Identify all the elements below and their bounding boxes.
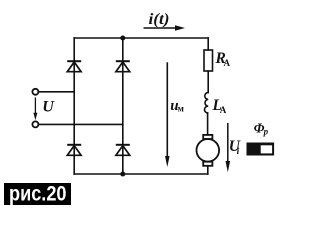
svg-text:A: A — [220, 105, 227, 115]
svg-text:i: i — [237, 147, 240, 157]
svg-text:p: p — [263, 127, 269, 137]
svg-text:рис.20: рис.20 — [9, 182, 67, 206]
svg-text:U: U — [42, 99, 55, 116]
svg-text:A: A — [224, 58, 231, 68]
svg-text:i(t): i(t) — [149, 11, 170, 28]
svg-text:м: м — [178, 104, 184, 114]
